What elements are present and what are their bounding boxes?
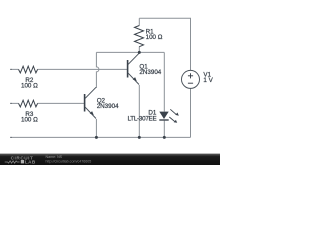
svg-text:1 V: 1 V xyxy=(203,77,213,84)
svg-text:http://circuitlab.com/c476605: http://circuitlab.com/c476605 xyxy=(46,160,92,164)
svg-text:100 Ω: 100 Ω xyxy=(21,117,38,124)
svg-text:LTL-307EE: LTL-307EE xyxy=(127,115,156,122)
svg-text:Name: NS: Name: NS xyxy=(46,155,63,159)
svg-text:2N3904: 2N3904 xyxy=(139,69,161,76)
svg-text:2N3904: 2N3904 xyxy=(97,103,119,110)
svg-text:100 Ω: 100 Ω xyxy=(21,83,38,90)
svg-text:LAB: LAB xyxy=(25,159,36,164)
svg-text:100 Ω: 100 Ω xyxy=(146,34,163,41)
